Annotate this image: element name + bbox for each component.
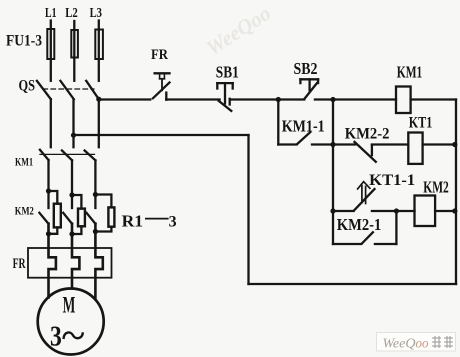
coil KM1 xyxy=(396,87,411,114)
svg-text:KT1-1: KT1-1 xyxy=(369,172,415,189)
junction node G xyxy=(452,208,457,213)
wire KT1 coil to right rail xyxy=(423,143,456,145)
wire node F to KM2 coil xyxy=(396,210,414,212)
switch QS blade pole 1 xyxy=(37,81,51,99)
wire phase L1 QS to KM1 xyxy=(50,99,52,147)
contactor KM1 main blade pole 1 xyxy=(40,150,49,160)
svg-text:FR: FR xyxy=(13,256,26,272)
junction dot phase2 resistor bottom xyxy=(69,231,74,236)
contactor KM2 blade pole 3 xyxy=(87,213,96,224)
wire KM1 coil to right rail xyxy=(411,98,456,100)
wire phase L3 QS to KM1 xyxy=(98,99,100,147)
contact KM2-2 (NC interlock) xyxy=(333,142,408,162)
svg-text:WeeQoo: WeeQoo xyxy=(383,336,429,351)
wire phase 3 KM2 to FR heater xyxy=(95,224,102,299)
svg-text:KM1-1: KM1-1 xyxy=(282,116,325,135)
svg-text:KM2-2: KM2-2 xyxy=(345,126,390,143)
contactor KM2 blade pole 2 xyxy=(63,213,72,224)
fuse FU2 xyxy=(71,30,78,58)
svg-text:L2: L2 xyxy=(65,5,78,20)
svg-text:3: 3 xyxy=(50,321,62,353)
svg-text:KM1: KM1 xyxy=(15,154,33,168)
wire FR to SB1 xyxy=(166,98,219,100)
watermark box bottom right xyxy=(377,333,456,352)
svg-text:FU1-3: FU1-3 xyxy=(6,33,42,50)
svg-text:QS: QS xyxy=(19,77,36,94)
fuse FU3 xyxy=(95,30,103,60)
resistor R1 branch phase 1 xyxy=(49,191,58,204)
wire KM2 coil to right rail xyxy=(435,210,456,212)
junction node D xyxy=(452,142,457,147)
contact KT1-1 (NO time delayed) xyxy=(333,182,396,211)
thermal contact FR (NC) xyxy=(153,73,170,99)
svg-text:KM2: KM2 xyxy=(15,204,34,218)
contact KM2-1 (NO self hold) xyxy=(333,211,396,244)
junction node F xyxy=(394,208,399,213)
svg-text:SB1: SB1 xyxy=(216,63,239,82)
contactor KM2 blade pole 1 xyxy=(39,213,48,224)
pushbutton SB1 (NC stop) xyxy=(217,83,232,111)
switch QS linkage dashed xyxy=(43,88,94,90)
junction dot phase1 resistor top xyxy=(46,188,51,193)
thermal relay FR box xyxy=(28,248,112,278)
wire SB2 to node B xyxy=(315,98,333,100)
junction node C xyxy=(330,142,335,147)
wire control top rail from tap to FR xyxy=(99,98,151,100)
wire phase 3 KM1 to KM2 contact xyxy=(94,160,96,208)
wire phase L1 vertical top through fuse to QS xyxy=(50,21,52,81)
junction dot phase3 resistor top xyxy=(93,192,98,197)
coil KT1 xyxy=(408,133,422,164)
contactor KM1 main blade pole 3 xyxy=(85,151,96,161)
wire phase 2 KM2 to FR heater xyxy=(72,224,79,289)
coil KM2 xyxy=(415,196,436,227)
wire left control vertical xyxy=(247,135,249,284)
junction node A xyxy=(276,97,281,102)
label R1-3 dash xyxy=(145,218,169,220)
contactor KM1 main blade pole 2 xyxy=(62,151,72,161)
wire phase 2 KM1 to KM2 contact xyxy=(71,160,73,208)
wire phase 1 KM1 to KM2 contact xyxy=(47,160,49,208)
wire bottom rail xyxy=(249,283,457,285)
svg-text:L1: L1 xyxy=(45,5,57,20)
wire phase L2 vertical top through fuse to QS xyxy=(73,21,75,81)
contactor KM1 linkage line xyxy=(40,153,95,155)
contact KM1-1 (NO self hold) xyxy=(278,132,333,144)
junction dot phase2 control tap xyxy=(71,133,76,138)
junction dot phase1 resistor bottom xyxy=(46,231,51,236)
wire node B to KM1 coil xyxy=(333,98,396,100)
svg-text:R1: R1 xyxy=(122,212,144,231)
resistor R2 branch phase 2 xyxy=(72,195,81,209)
wire phase2 tap to left control vertical xyxy=(74,134,249,136)
pushbutton SB2 (NO start) xyxy=(300,79,318,98)
svg-text:L3: L3 xyxy=(90,5,103,20)
svg-text:KT1: KT1 xyxy=(409,115,433,132)
junction node E xyxy=(330,208,335,213)
junction dot phase3 resistor bottom xyxy=(93,229,98,234)
switch QS blade pole 2 xyxy=(60,81,73,99)
junction dot phase3 control tap xyxy=(96,97,101,102)
wire phase L3 vertical top through fuse to QS xyxy=(98,21,100,81)
fuse FU1 xyxy=(47,29,54,59)
label motor AC tilde xyxy=(64,332,83,339)
wire node B vertical x333 xyxy=(332,100,334,245)
wire phase 1 KM2 to FR heater xyxy=(49,224,56,298)
svg-text:WeeQoo: WeeQoo xyxy=(202,1,275,60)
svg-text:3: 3 xyxy=(169,214,177,231)
resistor R3 branch phase 3 xyxy=(95,195,111,208)
motor M circle xyxy=(38,289,104,355)
svg-text:KM2-1: KM2-1 xyxy=(337,215,382,234)
wire node A down to KM1-1 xyxy=(277,100,279,145)
wire phase L2 QS to KM1 xyxy=(72,99,74,147)
junction dot phase2 resistor top xyxy=(69,192,74,197)
switch QS blade pole 3 xyxy=(86,81,99,99)
svg-text:SB2: SB2 xyxy=(294,59,318,78)
junction node B xyxy=(330,97,335,102)
svg-text:FR: FR xyxy=(151,47,168,63)
svg-text:KM2: KM2 xyxy=(423,178,449,197)
svg-text:M: M xyxy=(63,293,76,318)
wire SB1 to node A xyxy=(230,98,279,100)
wire right rail xyxy=(455,100,457,285)
svg-text:KM1: KM1 xyxy=(397,62,423,81)
wire node A to SB2 xyxy=(278,98,304,100)
